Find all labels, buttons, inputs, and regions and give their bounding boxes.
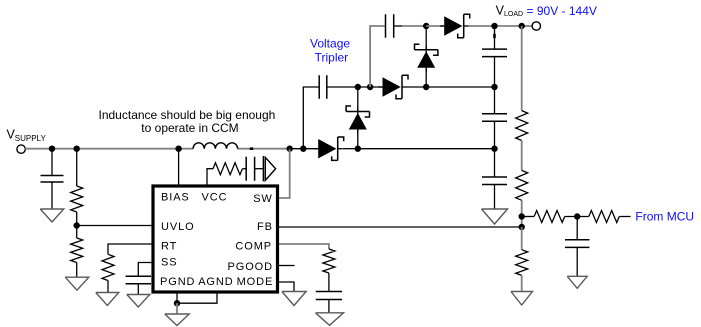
junction FB node lower (519, 224, 525, 230)
wire output cap column (494, 26, 496, 49)
resistor RFB2 (516, 170, 528, 200)
wire input rail left (25, 148, 193, 150)
junction UVLO divider top (74, 146, 80, 152)
wire RMCU1 to node (565, 216, 589, 218)
resistor RMCU2 (589, 211, 620, 223)
resistor RCOMP (323, 249, 335, 273)
junction MCU filter (574, 213, 580, 219)
wire riser to tripler C1 (303, 87, 319, 149)
wire D4 node to D5 (426, 25, 444, 27)
capacitor CSS (126, 275, 152, 277)
node VSUPPLY terminal (17, 145, 25, 153)
inductor L1 (193, 143, 238, 149)
junction PGND (174, 300, 180, 306)
ground COUT (482, 209, 508, 224)
wire RMCU2 to MCU (619, 216, 630, 218)
wire COMP (279, 244, 329, 249)
wire riser370 to top cap (370, 26, 385, 87)
junction middle row D4 bottom (423, 84, 429, 90)
svg-text:COMP: COMP (235, 241, 272, 253)
svg-text:SS: SS (161, 257, 177, 269)
wire stub on cap column (493, 34, 496, 38)
svg-text:= 90V - 144V: = 90V - 144V (527, 4, 597, 18)
junction middle row riser370 (367, 84, 373, 90)
wire main row right (358, 148, 495, 150)
capacitor COUT2 (482, 113, 507, 115)
junction output cap column (491, 23, 497, 29)
ground CSS (127, 295, 150, 308)
svg-text:PGOOD: PGOOD (228, 261, 273, 273)
wire RFB2 to FB node (521, 200, 523, 227)
wire load column top (521, 26, 523, 111)
capacitor COUT1 (482, 48, 507, 50)
resistor RFB3 (516, 250, 528, 276)
wire rail to D1 (290, 148, 319, 150)
ground CIN (40, 209, 64, 222)
wire FB to RMCU1 (522, 216, 534, 218)
wire snubber cap to diode (255, 168, 264, 170)
wire FB (279, 226, 522, 228)
junction D1 cathode (355, 146, 361, 152)
wire SS (138, 263, 151, 277)
op-amp U1 boost controller (153, 186, 278, 292)
capacitor C1 tripler (318, 75, 320, 99)
node VLOAD terminal (532, 22, 540, 30)
wire C2 lead (394, 25, 402, 27)
resistor RVCC snubber (213, 163, 242, 175)
svg-text:to operate in CCM: to operate in CCM (141, 121, 238, 135)
wire UVLO (77, 225, 152, 227)
wire AGND (177, 294, 217, 304)
wire D1 to node SW2 (343, 148, 358, 150)
svg-text:From MCU: From MCU (635, 209, 694, 223)
svg-text:SUPPLY: SUPPLY (15, 134, 47, 143)
junction input cap (49, 146, 55, 152)
resistor RUV1 (76, 149, 78, 186)
capacitor COUT3 (482, 176, 507, 178)
resistor RT (102, 254, 114, 280)
capacitor CMCU (565, 239, 590, 241)
resistor RMCU1 (534, 211, 565, 223)
wire FB node down (521, 227, 523, 250)
capacitor C2 tripler (385, 14, 387, 38)
diode D1 schottky (318, 139, 336, 158)
wire MODE (279, 282, 294, 292)
junction BIAS (175, 146, 181, 152)
ground CMCU (567, 276, 587, 288)
diode D2 schottky up (357, 87, 359, 149)
wire top row to D5 (402, 25, 426, 27)
capacitor CVCC snubber (245, 157, 247, 181)
wire C1 to middle row (327, 86, 383, 88)
junction UVLO node (74, 222, 80, 228)
junction top row D4 (423, 23, 429, 29)
diode D4 schottky up (425, 26, 427, 87)
diode D3 schottky (383, 77, 401, 96)
wire D3 to middle node (407, 86, 495, 88)
wire PGND to ground (176, 303, 178, 314)
svg-text:BIAS: BIAS (161, 192, 190, 204)
wire SW (279, 149, 290, 198)
svg-text:Voltage: Voltage (310, 37, 350, 51)
junction COUT mid top (491, 84, 497, 90)
svg-text:RT: RT (161, 241, 177, 253)
capacitor CIN (41, 175, 64, 177)
resistor RUV2 (76, 226, 78, 239)
svg-text:MODE: MODE (237, 276, 274, 288)
junction load resistor column (519, 23, 525, 29)
ground PGND (165, 314, 189, 326)
ground RT (96, 293, 119, 306)
wire BIAS drop (178, 149, 180, 185)
junction SW node (287, 146, 293, 152)
wire PGOOD stub (279, 265, 295, 267)
wire RFB3 to ground (521, 275, 523, 291)
junction middle row D2 (355, 84, 361, 90)
ground RUV2 (65, 277, 89, 290)
svg-text:SW: SW (253, 193, 273, 205)
wire RT (108, 244, 152, 254)
diode D5 schottky (444, 16, 462, 35)
resistor RFB1 (516, 111, 528, 141)
wire PGND (176, 294, 178, 304)
diode snubber open triangle (262, 156, 264, 181)
wire top row to VLOAD (469, 25, 533, 27)
junction tripler C1 tap (300, 146, 306, 152)
ground RFB3 (511, 292, 533, 306)
capacitor CCOMP (316, 291, 342, 293)
wire VCC to snubber (207, 169, 213, 185)
svg-text:AGND: AGND (198, 276, 233, 288)
svg-text:VCC: VCC (202, 192, 228, 204)
wire input rail right of inductor (238, 148, 290, 150)
svg-text:FB: FB (257, 221, 273, 233)
svg-text:Tripler: Tripler (315, 51, 349, 65)
ground MODE (282, 292, 306, 306)
svg-text:UVLO: UVLO (161, 221, 195, 233)
svg-text:PGND: PGND (160, 276, 195, 288)
wire stub on rail (250, 147, 253, 150)
wire between RFB1 RFB2 (521, 141, 523, 171)
svg-text:LOAD: LOAD (504, 11, 523, 18)
ground CCOMP (316, 313, 344, 326)
junction COUT main row (491, 146, 497, 152)
junction FB node upper (519, 213, 525, 219)
